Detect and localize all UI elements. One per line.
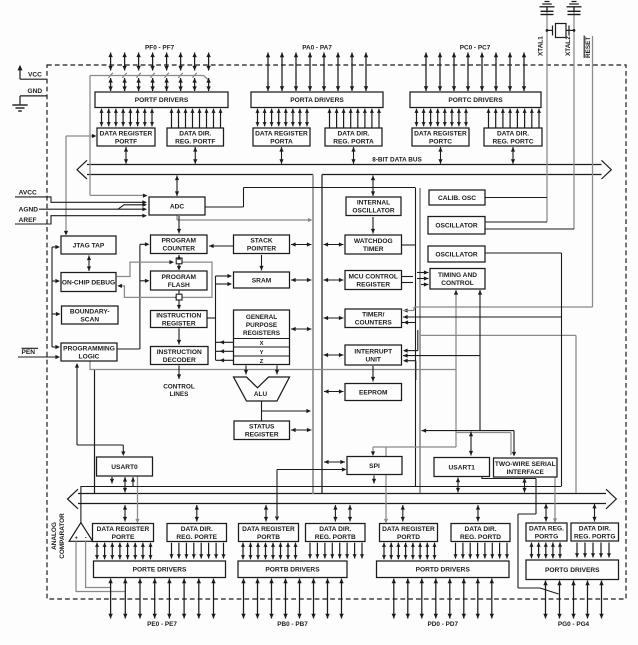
svg-text:VCC: VCC <box>28 72 42 79</box>
gray wire SPI/USART clock horizontal <box>373 446 456 448</box>
arrows rail to spi <box>324 461 345 463</box>
wire rail to timer stub <box>402 322 416 324</box>
gray loop on-chip debug to flash latch <box>117 262 170 276</box>
svg-text:CONTROL: CONTROL <box>441 280 474 287</box>
block OSCILLATOR (1) <box>428 217 485 235</box>
arrow mcu control register to rail <box>324 279 344 281</box>
svg-text:PORTF DRIVERS: PORTF DRIVERS <box>135 97 189 104</box>
gray wire to TWO-WIRE region <box>456 432 511 434</box>
block PORTC DRIVERS <box>410 92 541 108</box>
block DATA REGISTER PORTA <box>253 128 310 146</box>
svg-text:TIMER/: TIMER/ <box>362 312 385 319</box>
svg-text:CONTROL: CONTROL <box>163 384 195 391</box>
arrow DATA REGISTER PORTC to bus <box>440 147 442 164</box>
arrow twi to bus <box>524 478 526 493</box>
VCC pin <box>19 69 21 79</box>
gray wire TWI to port <box>554 477 556 520</box>
svg-text:DATA REGISTER: DATA REGISTER <box>100 130 153 137</box>
svg-text:PORTC DRIVERS: PORTC DRIVERS <box>448 97 503 104</box>
svg-text:XTAL1: XTAL1 <box>538 36 545 56</box>
bundle PORTF drivers to data register <box>101 109 103 127</box>
arrow timers to rail <box>324 317 344 319</box>
wire timing&control feeds <box>417 272 429 274</box>
analog comparator <box>69 523 93 542</box>
bundle PORTA drivers to data dir reg <box>329 109 331 128</box>
arrow JTAG to on-chip debug <box>88 256 90 272</box>
svg-text:Z: Z <box>260 359 264 365</box>
svg-text:CALIB. OSC: CALIB. OSC <box>438 195 476 202</box>
block PROGRAMMING LOGIC <box>61 343 117 361</box>
crystal <box>556 24 567 38</box>
block PROGRAM COUNTER <box>151 235 208 254</box>
svg-text:REG. PORTB: REG. PORTB <box>315 534 356 541</box>
arrows gpr to alu <box>245 366 247 375</box>
wire alu to status register and rail <box>261 401 263 421</box>
gray loop flash latch2 to on-chip debug <box>122 262 213 297</box>
arrow stack pointer to rail <box>291 244 312 246</box>
svg-text:COMPARATOR: COMPARATOR <box>59 513 66 559</box>
block DATA REGISTER PORTE <box>93 524 154 542</box>
capacitor at XTAL1 <box>541 10 554 12</box>
block DATA DIR. REG. PORTA <box>325 128 382 146</box>
wire OSCILLATOR to XTAL2 <box>485 228 574 230</box>
arrow DATA DIR. REG. PORTF to bus <box>194 147 196 164</box>
arrow status register to rail <box>291 429 312 431</box>
svg-text:GENERAL: GENERAL <box>246 314 277 321</box>
block PORTF DRIVERS <box>95 92 228 108</box>
pin bundle PORTD (bottom) <box>393 579 395 619</box>
svg-text:PB0 - PB7: PB0 - PB7 <box>277 621 308 628</box>
gray wire ADC output to CPU rail <box>176 215 178 220</box>
svg-text:PORTA DRIVERS: PORTA DRIVERS <box>290 97 344 104</box>
svg-text:PA0 - PA7: PA0 - PA7 <box>302 45 332 52</box>
arrow bus to program counter <box>178 216 180 234</box>
svg-text:PORTB DRIVERS: PORTB DRIVERS <box>265 567 320 574</box>
block TIMING AND CONTROL <box>430 269 485 290</box>
svg-text:REGISTERS: REGISTERS <box>243 330 281 337</box>
block GENERAL PURPOSE REGISTERS <box>234 310 290 365</box>
gray wire JTAG TAP to DATA REGISTER PORTF <box>65 136 67 233</box>
block PORTE DRIVERS <box>94 561 226 578</box>
block EEPROM <box>345 384 402 401</box>
svg-text:INSTRUCTION: INSTRUCTION <box>157 349 202 356</box>
block ADC <box>149 197 205 215</box>
pin bundle PORTG (bottom) <box>545 581 547 619</box>
svg-text:COUNTERS: COUNTERS <box>355 320 393 327</box>
block DATA REGISTER PORTD <box>380 524 438 542</box>
svg-text:PF0 - PF7: PF0 - PF7 <box>145 45 175 52</box>
arrow DATA REGISTER PORTA to bus <box>281 147 283 164</box>
svg-text:MCU CONTROL: MCU CONTROL <box>349 273 398 280</box>
svg-text:PORTD DRIVERS: PORTD DRIVERS <box>416 567 471 574</box>
svg-text:USART0: USART0 <box>111 464 138 471</box>
arrow gpr to rail <box>291 328 312 330</box>
svg-text:EEPROM: EEPROM <box>359 389 388 396</box>
block DATA DIR. REG. PORTB <box>306 524 366 542</box>
svg-text:PG0 - PG4: PG0 - PG4 <box>558 621 590 628</box>
svg-text:PROGRAM: PROGRAM <box>162 238 197 245</box>
arrow usart1 top <box>470 432 472 456</box>
block PORTA DRIVERS <box>251 92 383 108</box>
svg-text:PROGRAM: PROGRAM <box>162 274 197 281</box>
svg-text:SRAM: SRAM <box>252 277 272 284</box>
wire timer clock <box>403 316 562 318</box>
block BOUNDARY-SCAN <box>62 306 119 324</box>
block DATA DIR. REG. PORTG <box>571 523 619 541</box>
gray wire clock branch right <box>420 334 576 336</box>
svg-text:FLASH: FLASH <box>168 282 190 289</box>
bundle data dir PORTG to drivers <box>576 543 578 558</box>
gray wire timing net vertical <box>455 290 457 447</box>
svg-text:DATA DIR.: DATA DIR. <box>319 526 351 533</box>
bundle data dir PORTE to drivers <box>171 543 173 559</box>
svg-text:REG. PORTD: REG. PORTD <box>460 534 501 541</box>
wire bus-left vertical <box>94 370 96 495</box>
wire OSCILLATOR to XTAL1 <box>485 221 547 223</box>
svg-text:Y: Y <box>260 350 264 356</box>
pin bundle PORTA (top) <box>267 53 269 92</box>
svg-text:INTERRUPT: INTERRUPT <box>354 348 392 355</box>
wire left service rail <box>51 247 53 347</box>
gray wire control net (long horizontal) <box>90 361 456 370</box>
arrow ADC to bus <box>176 176 178 197</box>
svg-text:DATA DIR.: DATA DIR. <box>497 130 529 137</box>
wire CALIB OSC right <box>485 197 547 199</box>
8-bit data bus (top) <box>87 164 602 166</box>
block DATA REGISTER PORTC <box>412 128 469 146</box>
svg-text:DATA REGISTER: DATA REGISTER <box>255 130 308 137</box>
svg-text:PORTG DRIVERS: PORTG DRIVERS <box>545 567 600 574</box>
svg-text:INTERNAL: INTERNAL <box>357 200 390 207</box>
block SRAM <box>234 272 290 288</box>
svg-text:SPI: SPI <box>369 463 380 470</box>
latch between flash and instruction register <box>178 291 180 295</box>
arrow stack pointer to program counter <box>209 245 234 247</box>
bundle data reg PORTG to drivers <box>531 543 533 559</box>
wire PORTG routing <box>482 477 536 479</box>
arrow interrupt to eeprom <box>372 366 374 382</box>
svg-text:REG. PORTG: REG. PORTG <box>574 534 615 541</box>
svg-text:REG. PORTC: REG. PORTC <box>492 139 533 146</box>
svg-text:DATA DIR.: DATA DIR. <box>337 130 369 137</box>
wire interrupt line <box>403 355 480 357</box>
svg-text:DATA REGISTER: DATA REGISTER <box>242 526 295 533</box>
block DATA DIR. REG. PORTF <box>167 128 224 146</box>
arrow sram to rail <box>291 279 312 281</box>
block TIMER/COUNTERS <box>345 309 402 328</box>
block DATA DIR. REG. PORTD <box>451 524 510 542</box>
svg-text:PEN: PEN <box>22 349 36 356</box>
wire t&c bottom feed <box>479 290 481 431</box>
svg-text:BOUNDARY-: BOUNDARY- <box>70 308 110 315</box>
block PROGRAM FLASH <box>151 271 208 290</box>
block DATA REGISTER PORTF <box>97 128 155 146</box>
block ON-CHIP DEBUG <box>61 273 116 292</box>
block OSCILLATOR (2) <box>428 246 485 262</box>
bundle data register PORTD to drivers <box>383 543 385 560</box>
wire OSCILLATOR2 clock trunk <box>485 252 562 254</box>
svg-text:OSCILLATOR: OSCILLATOR <box>435 251 477 258</box>
wire instr reg to sram <box>215 276 217 360</box>
arrow instruction register to decoder <box>178 329 180 345</box>
svg-text:REGISTER: REGISTER <box>245 432 279 439</box>
svg-text:REGISTER: REGISTER <box>162 321 196 328</box>
svg-text:LOGIC: LOGIC <box>79 354 100 361</box>
svg-text:PD0 - PD7: PD0 - PD7 <box>428 621 459 628</box>
arrow bus to data register PORTE dir <box>196 505 198 522</box>
svg-text:TIMING AND: TIMING AND <box>438 272 477 279</box>
gray wire JTAG chain (left trunk + crossing PORTF pins) <box>89 76 91 196</box>
gray wire XTAL2 <box>573 8 575 230</box>
block CALIB. OSC <box>429 190 485 205</box>
svg-text:COUNTER: COUNTER <box>162 246 195 253</box>
bundle data dir PORTB to drivers <box>309 543 311 559</box>
block USART0 <box>97 457 153 476</box>
arrows bus to PORTG regs <box>545 504 547 522</box>
svg-text:REGISTER: REGISTER <box>356 282 390 289</box>
ground symbol <box>12 104 27 106</box>
black right rail <box>415 188 417 486</box>
svg-text:DATA REG.: DATA REG. <box>529 525 564 532</box>
svg-text:RESET: RESET <box>585 37 592 58</box>
svg-text:PURPOSE: PURPOSE <box>246 322 278 329</box>
block INSTRUCTION REGISTER <box>151 311 208 328</box>
wire programming logic / usart0 <box>76 364 78 445</box>
svg-text:UNIT: UNIT <box>366 357 381 364</box>
block SPI <box>347 457 402 475</box>
svg-text:XTAL2: XTAL2 <box>565 36 572 56</box>
bundle data register PORTB to drivers <box>242 543 244 560</box>
wire programming logic to program counter and flash <box>117 348 140 350</box>
svg-text:ADC: ADC <box>170 203 185 210</box>
arrow interrupt extra feeds <box>417 330 419 351</box>
svg-text:DECODER: DECODER <box>163 357 196 364</box>
black peripheral rail <box>321 175 323 495</box>
block PORTD DRIVERS <box>377 561 510 578</box>
wire PEN <box>18 356 57 358</box>
arrows usart0 to bus <box>111 477 113 484</box>
block STACK POINTER <box>234 235 290 254</box>
svg-text:STATUS: STATUS <box>249 424 275 431</box>
wire watchdog to timing control <box>402 244 416 246</box>
bundle PORTC drivers to data dir reg <box>488 109 490 128</box>
svg-text:X: X <box>260 341 264 347</box>
chip boundary (dashed) <box>47 65 626 599</box>
gray CPU bus rail <box>312 175 314 495</box>
block WATCHDOG TIMER <box>345 235 402 254</box>
latch between PC and flash <box>178 255 180 258</box>
block MCU CONTROL REGISTER <box>345 271 402 290</box>
arrow internal osc to watchdog <box>372 217 374 234</box>
svg-text:PORTD: PORTD <box>397 534 420 541</box>
block STATUS REGISTER <box>234 421 290 440</box>
svg-text:INSTRUCTION: INSTRUCTION <box>156 312 201 319</box>
block INTERNAL OSCILLATOR <box>346 197 401 216</box>
arrow stack pointer to sram <box>261 255 263 271</box>
svg-text:PORTE DRIVERS: PORTE DRIVERS <box>133 567 187 574</box>
block DATA REG. PORTG <box>526 523 567 541</box>
block DATA DIR. REG. PORTE <box>167 524 227 542</box>
block INTERRUPT UNIT <box>345 345 402 365</box>
svg-text:PE0 - PE7: PE0 - PE7 <box>147 621 177 628</box>
svg-text:PORTB: PORTB <box>257 534 280 541</box>
svg-text:PC0 - PC7: PC0 - PC7 <box>460 45 491 52</box>
arrow spi down <box>373 476 375 484</box>
ground symbol above XTAL2 cap <box>572 1 577 3</box>
svg-text:+: + <box>75 535 78 541</box>
block USART1 <box>434 458 490 477</box>
svg-text:DATA DIR.: DATA DIR. <box>179 130 211 137</box>
svg-text:DATA REGISTER: DATA REGISTER <box>97 526 150 533</box>
svg-text:ON-CHIP DEBUG: ON-CHIP DEBUG <box>62 279 115 286</box>
arrow internal osc to bus <box>372 176 374 197</box>
comparator input wires <box>76 541 125 591</box>
svg-text:LINES: LINES <box>170 391 190 398</box>
svg-text:POINTER: POINTER <box>247 246 277 253</box>
block PORTG DRIVERS <box>526 560 619 580</box>
bundle data dir PORTD to drivers <box>455 543 457 559</box>
svg-text:DATA DIR.: DATA DIR. <box>464 526 496 533</box>
svg-text:REG. PORTF: REG. PORTF <box>175 139 215 146</box>
arrow DATA DIR. REG. PORTA to bus <box>353 147 355 164</box>
svg-text:ALU: ALU <box>254 391 268 398</box>
bundle data register PORTE to drivers <box>96 543 98 560</box>
pin bundle PORTC (top) <box>425 53 427 92</box>
svg-text:PORTC: PORTC <box>429 139 452 146</box>
pin bundle PORTB (bottom) <box>243 579 245 619</box>
ground symbol above XTAL1 cap <box>545 1 550 3</box>
svg-text:-: - <box>85 536 87 542</box>
svg-text:PORTG: PORTG <box>535 534 558 541</box>
gray right rail <box>419 188 421 493</box>
svg-text:AGND: AGND <box>19 207 39 214</box>
wire mcu control to timing control <box>402 276 414 278</box>
svg-text:AVCC: AVCC <box>19 190 37 197</box>
data bus (bottom) <box>78 493 606 495</box>
svg-text:AREF: AREF <box>19 217 37 224</box>
arrow watchdog to rail <box>324 244 344 246</box>
arrow decoder to control lines <box>178 366 180 380</box>
arrow usart1 to bus <box>457 478 459 493</box>
arrows bus to PORTD regs <box>402 505 404 522</box>
arrow DATA REGISTER PORTF to bus <box>125 147 127 164</box>
svg-text:TIMER: TIMER <box>363 246 384 253</box>
svg-text:DATA REGISTER: DATA REGISTER <box>414 130 467 137</box>
svg-text:8-BIT DATA BUS: 8-BIT DATA BUS <box>372 157 422 164</box>
capacitor at XTAL2 <box>568 10 581 12</box>
block DATA DIR. REG. PORTC <box>484 128 542 146</box>
svg-text:REG. PORTA: REG. PORTA <box>333 139 374 146</box>
svg-text:SCAN: SCAN <box>80 317 99 324</box>
svg-text:OSCILLATOR: OSCILLATOR <box>352 208 394 215</box>
bundle PORTA drivers to data register <box>257 109 259 127</box>
bundle PORTF drivers to data dir reg <box>171 109 173 128</box>
block DATA REGISTER PORTB <box>239 524 299 542</box>
svg-text:USART1: USART1 <box>449 464 476 471</box>
wire ADC conversion clock <box>205 206 244 208</box>
arrow rail to eeprom <box>324 391 344 393</box>
gray wire RESET to timer <box>592 36 594 307</box>
wire serial control <box>422 430 515 432</box>
svg-text:PORTF: PORTF <box>115 139 137 146</box>
svg-text:OSCILLATOR: OSCILLATOR <box>435 223 477 230</box>
svg-text:STACK: STACK <box>250 238 272 245</box>
gray wire XTAL1 <box>546 8 548 223</box>
svg-text:INTERFACE: INTERFACE <box>507 469 545 476</box>
ALU <box>234 377 290 401</box>
arrows bus to PORTB regs <box>265 505 267 522</box>
GND pin <box>20 95 47 97</box>
svg-text:DATA DIR.: DATA DIR. <box>181 526 213 533</box>
block JTAG TAP <box>61 236 116 254</box>
svg-text:DATA DIR.: DATA DIR. <box>579 525 611 532</box>
svg-text:TWO-WIRE SERIAL: TWO-WIRE SERIAL <box>495 461 556 468</box>
arrow DATA DIR. REG. PORTC to bus <box>512 147 514 164</box>
svg-text:DATA REGISTER: DATA REGISTER <box>382 526 435 533</box>
svg-text:REG. PORTE: REG. PORTE <box>176 534 217 541</box>
wire comparator output <box>80 486 82 523</box>
svg-text:PORTA: PORTA <box>270 139 293 146</box>
bundle PORTC drivers to data register <box>416 109 418 127</box>
svg-text:PROGRAMMING: PROGRAMMING <box>63 345 115 352</box>
block PORTB DRIVERS <box>238 561 347 578</box>
pin bundle PORTF (top) <box>110 53 112 71</box>
block TWO-WIRE SERIAL INTERFACE <box>494 458 558 477</box>
svg-text:ANALOG: ANALOG <box>51 522 58 550</box>
svg-text:GND: GND <box>28 88 43 95</box>
wire long horizontal <box>81 486 562 488</box>
svg-text:WATCHDOG: WATCHDOG <box>354 238 393 245</box>
gray wire USART1 to PORTD <box>385 447 387 520</box>
pin bundle PORTE (bottom) <box>110 579 112 619</box>
svg-text:PORTE: PORTE <box>112 534 135 541</box>
block INSTRUCTION DECODER <box>151 347 209 365</box>
svg-text:JTAG TAP: JTAG TAP <box>73 242 105 249</box>
arrow interrupt to rail <box>324 354 344 356</box>
gray wire USART0 TX/RX to PORTE <box>137 476 139 520</box>
